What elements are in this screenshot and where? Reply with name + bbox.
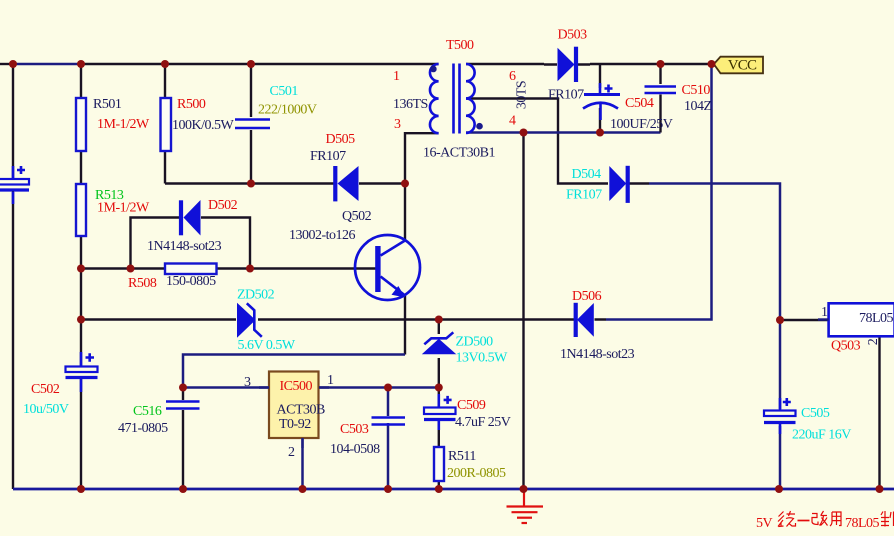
- node ZD500 bottom: [435, 384, 443, 392]
- svg-text:136TS: 136TS: [393, 97, 428, 112]
- transformer phase dot primary: [430, 66, 437, 73]
- diode D505: [319, 166, 371, 201]
- node rail R511: [435, 485, 443, 493]
- wire C516 x183: [182, 388, 184, 490]
- resistor R501: [76, 98, 86, 151]
- node C503 top: [384, 384, 392, 392]
- svg-text:220uF 16V: 220uF 16V: [792, 428, 851, 443]
- node rail 78L05 pin2: [876, 485, 884, 493]
- svg-text:16-ACT30B1: 16-ACT30B1: [423, 146, 496, 161]
- svg-text:FR107: FR107: [566, 188, 602, 203]
- node base left: [77, 265, 85, 273]
- svg-text:D505: D505: [326, 132, 356, 147]
- svg-text:C504: C504: [625, 96, 654, 111]
- node rail ground: [520, 485, 528, 493]
- capacitor C503: [372, 418, 406, 425]
- wire left edge vertical lower: [12, 190, 14, 489]
- resistor R511: [434, 447, 444, 481]
- wire 78L05 pin2 down: [878, 336, 880, 489]
- svg-text:D503: D503: [558, 28, 588, 43]
- transformer T500 core: [454, 64, 460, 134]
- note hanzi gai: [812, 511, 828, 526]
- note hanzi yi: [798, 520, 810, 522]
- svg-text:D506: D506: [572, 289, 602, 304]
- IC IC500 box: [259, 372, 329, 449]
- node zener line left: [77, 316, 85, 324]
- svg-text:IC500: IC500: [280, 379, 313, 394]
- svg-text:R508: R508: [128, 276, 157, 291]
- wire D503 to VCC: [590, 63, 712, 65]
- svg-text:100UF/25V: 100UF/25V: [610, 117, 673, 132]
- wire IC pin1 to C509: [319, 386, 439, 389]
- wire top rail to transformer pin 1: [81, 63, 439, 65]
- wire mid tap: [466, 99, 594, 184]
- svg-text:2: 2: [866, 338, 881, 345]
- wire left edge vertical: [12, 64, 14, 180]
- node rail IC pin2: [299, 485, 307, 493]
- wire transformer pin3 down: [405, 133, 439, 240]
- svg-text:2: 2: [288, 445, 295, 460]
- svg-text:1M-1/2W: 1M-1/2W: [97, 201, 150, 216]
- svg-text:200R-0805: 200R-0805: [447, 466, 506, 481]
- wire C510 x660.5: [659, 64, 661, 133]
- svg-text:1: 1: [327, 373, 334, 388]
- svg-text:VCC: VCC: [728, 58, 757, 74]
- svg-text:C516: C516: [133, 404, 162, 419]
- wire R500 x165: [164, 64, 166, 184]
- svg-text:3: 3: [394, 117, 401, 132]
- transistor Q502: [355, 235, 420, 300]
- svg-text:R500: R500: [177, 97, 206, 112]
- capacitor C501: [235, 120, 270, 129]
- node top rail A: [9, 60, 17, 68]
- resistor R513: [76, 184, 86, 236]
- svg-text:ZD500: ZD500: [456, 335, 494, 350]
- wire transformer pin6 to D503: [466, 63, 544, 65]
- wire C509 R511 x438.8: [438, 424, 440, 489]
- svg-text:R501: R501: [93, 97, 122, 112]
- svg-text:100K/0.5W: 100K/0.5W: [172, 118, 235, 133]
- wire C504 x600: [599, 64, 601, 133]
- svg-text:D502: D502: [208, 198, 238, 213]
- node VCC: [708, 60, 716, 68]
- svg-text:1N4148-sot23: 1N4148-sot23: [560, 347, 635, 362]
- node top rail B: [77, 60, 85, 68]
- wire zener line y319.5: [81, 318, 565, 320]
- IC Q503 78L05 box: [818, 303, 894, 336]
- svg-text:C510: C510: [682, 83, 711, 98]
- svg-text:1N4148-sot23: 1N4148-sot23: [147, 239, 222, 254]
- svg-text:FR107: FR107: [310, 149, 346, 164]
- svg-text:FR107: FR107: [548, 88, 584, 103]
- svg-text:ACT30B: ACT30B: [277, 403, 326, 418]
- svg-text:C501: C501: [270, 84, 299, 99]
- node IC pin3: [179, 384, 187, 392]
- svg-text:ZD502: ZD502: [237, 288, 275, 303]
- capacitor C505 electrolytic: [764, 398, 796, 434]
- svg-text:10u/50V: 10u/50V: [23, 402, 69, 417]
- node top rail C: [161, 60, 169, 68]
- resistor R508: [165, 264, 217, 275]
- wire node R500 bottom to D505 to collector: [165, 182, 405, 184]
- svg-text:78L05: 78L05: [859, 311, 894, 326]
- diode D504: [594, 166, 649, 203]
- wire D504 out to corner: [649, 184, 780, 321]
- svg-text:1: 1: [393, 69, 400, 84]
- wire VCC vertical to D506: [606, 64, 712, 320]
- note hanzi yong: [830, 512, 841, 526]
- capacitor C504 electrolytic arc style: [583, 83, 620, 120]
- node D502 left: [127, 265, 135, 273]
- wire top rail left stub: [0, 63, 13, 65]
- wire D502 loop right: [216, 218, 250, 269]
- wire R501 chain x81: [80, 64, 82, 489]
- node top rail D: [247, 60, 255, 68]
- transformer T500 primary winding: [430, 64, 439, 133]
- svg-text:D504: D504: [572, 167, 602, 182]
- svg-text:4: 4: [509, 114, 516, 129]
- wire C505 x780: [779, 320, 782, 489]
- wire ZD500 stubs: [438, 320, 440, 405]
- node collector: [401, 180, 409, 188]
- ground symbol: [507, 489, 544, 523]
- svg-text:5.6V 0.5W: 5.6V 0.5W: [238, 338, 296, 353]
- wire R508 line base: [81, 267, 376, 269]
- wire IC pin2: [301, 438, 304, 489]
- svg-text:C505: C505: [801, 406, 830, 421]
- svg-text:13V0.5W: 13V0.5W: [456, 351, 509, 366]
- wire pin4 line: [466, 131, 661, 134]
- diode D502: [167, 200, 216, 236]
- wire IC pin3: [183, 386, 269, 389]
- svg-text:C509: C509: [457, 398, 486, 413]
- svg-text:104Z: 104Z: [684, 99, 712, 114]
- wire D502 loop left: [131, 218, 168, 269]
- capacitor at left edge electrolytic: [0, 166, 29, 204]
- transformer T500 secondary winding upper: [466, 64, 475, 99]
- svg-text:78L05: 78L05: [845, 516, 880, 531]
- svg-text:30TS: 30TS: [515, 81, 530, 109]
- capacitor C510: [645, 87, 677, 94]
- wire C503 x388: [387, 388, 390, 490]
- svg-text:C503: C503: [340, 422, 369, 437]
- svg-text:5V: 5V: [756, 516, 773, 531]
- note hanzi tong: [778, 511, 796, 527]
- capacitor C502 electrolytic: [66, 352, 98, 392]
- svg-text:104-0508: 104-0508: [330, 442, 380, 457]
- node ZD500 top: [435, 316, 443, 324]
- zener ZD502: [223, 303, 272, 338]
- node base right: [246, 265, 254, 273]
- svg-text:13002-to126: 13002-to126: [289, 228, 356, 243]
- zener ZD500: [422, 332, 457, 354]
- transformer phase dot secondary: [476, 123, 483, 130]
- capacitor C509 electrolytic: [424, 394, 456, 430]
- wire top rail navy segment: [13, 63, 81, 66]
- note hanzi wen clipped: [881, 511, 894, 527]
- svg-text:T0-92: T0-92: [279, 417, 311, 432]
- svg-text:222/1000V: 222/1000V: [258, 103, 317, 118]
- svg-text:1M-1/2W: 1M-1/2W: [97, 117, 150, 132]
- node rail C505: [775, 485, 783, 493]
- svg-text:Q502: Q502: [342, 209, 372, 224]
- svg-text:Q503: Q503: [831, 339, 861, 354]
- svg-text:1: 1: [821, 305, 828, 320]
- node pin4: [520, 129, 528, 137]
- transformer T500 secondary winding lower: [466, 99, 475, 134]
- svg-text:471-0805: 471-0805: [118, 421, 168, 436]
- resistor R500: [161, 98, 172, 151]
- svg-text:3: 3: [244, 375, 251, 390]
- capacitor C516: [166, 402, 200, 409]
- wire bottom rail: [13, 488, 894, 491]
- svg-text:R511: R511: [448, 449, 476, 464]
- VCC power flag: [714, 57, 763, 74]
- diode D506: [565, 303, 606, 337]
- wire C501 x251: [250, 64, 252, 184]
- node C510 top: [657, 60, 665, 68]
- wire to 78L05 pin1: [780, 319, 829, 321]
- node rail C516: [179, 485, 187, 493]
- node C504 bottom: [596, 129, 604, 137]
- svg-text:4.7uF 25V: 4.7uF 25V: [455, 415, 511, 430]
- svg-text:C502: C502: [31, 382, 60, 397]
- node snubber C501: [247, 180, 255, 188]
- diode D503: [544, 47, 590, 82]
- node rail C503: [384, 485, 392, 493]
- node rail C502: [77, 485, 85, 493]
- svg-text:T500: T500: [446, 38, 474, 53]
- wire emitter horizontal to IC pin3: [183, 355, 405, 388]
- node 78L05 input: [776, 316, 784, 324]
- wire emitter down and left: [404, 295, 406, 355]
- wire x524 vertical to ground: [522, 133, 524, 490]
- svg-text:150-0805: 150-0805: [166, 274, 216, 289]
